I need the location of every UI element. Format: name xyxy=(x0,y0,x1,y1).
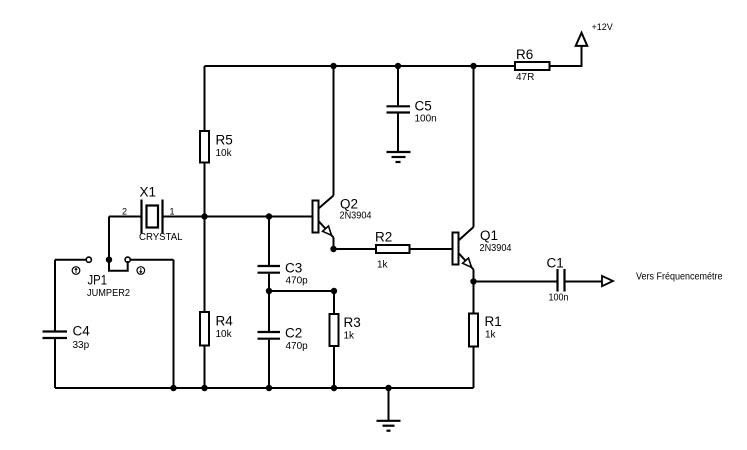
svg-text:C2: C2 xyxy=(285,326,302,341)
svg-text:R1: R1 xyxy=(485,314,502,329)
wire left column to C4 xyxy=(54,260,56,331)
capacitor C3 xyxy=(258,261,309,287)
wire Q2 emitter to R2 xyxy=(334,248,377,250)
wire R1 top xyxy=(473,282,475,314)
svg-text:JUMPER2: JUMPER2 xyxy=(87,288,130,299)
wire C5 bottom to ground xyxy=(397,114,399,152)
resistor R2 xyxy=(375,230,410,271)
svg-text:2N3904: 2N3904 xyxy=(480,243,512,254)
svg-text:10k: 10k xyxy=(216,148,233,159)
wire C3 bottom xyxy=(268,274,270,291)
svg-text:Q2: Q2 xyxy=(340,197,358,212)
svg-text:C4: C4 xyxy=(73,324,91,339)
svg-text:C3: C3 xyxy=(285,261,302,276)
svg-text:33p: 33p xyxy=(73,340,90,351)
power +12V xyxy=(576,22,613,46)
svg-text:100n: 100n xyxy=(415,114,437,125)
svg-text:2: 2 xyxy=(122,207,127,217)
wire C2 bottom xyxy=(268,340,270,388)
wire R2 to Q1 base xyxy=(410,248,453,250)
transistor Q1 xyxy=(453,227,512,270)
wire ground stub xyxy=(388,388,390,420)
svg-text:470p: 470p xyxy=(286,341,309,352)
svg-text:R2: R2 xyxy=(375,230,392,245)
wire R6 to +12V corner xyxy=(550,46,582,66)
svg-text:2N3904: 2N3904 xyxy=(340,211,372,222)
svg-text:Q1: Q1 xyxy=(480,228,498,243)
node bottom rail / ground xyxy=(385,385,391,391)
svg-text:R3: R3 xyxy=(344,315,361,330)
wire JP1 pin right xyxy=(130,259,173,261)
resistor R3 xyxy=(330,314,361,346)
svg-text:R5: R5 xyxy=(216,133,233,148)
wire Q1 emitter stub xyxy=(473,270,475,282)
wire R3 bottom xyxy=(333,346,335,388)
wire C2 top xyxy=(268,291,270,331)
resistor R6 xyxy=(515,47,550,83)
svg-text:Vers Fréquencemétre: Vers Fréquencemétre xyxy=(636,270,723,282)
transistor Q2 xyxy=(313,196,372,238)
node Q1 emitter / R1 / C1 xyxy=(470,278,476,284)
ground bottom rail xyxy=(377,421,401,431)
wire C4 bottom to bottom rail xyxy=(54,339,56,388)
svg-text:CRYSTAL: CRYSTAL xyxy=(139,232,183,243)
wire C5 top xyxy=(397,66,399,105)
svg-text:R4: R4 xyxy=(216,314,234,329)
wire C3-R3 row xyxy=(269,290,334,292)
node C3 bottom left xyxy=(266,288,272,294)
output arrow Vers Frequencemetre xyxy=(602,270,723,286)
svg-text:10k: 10k xyxy=(216,329,233,340)
wire crystal pin1 to Q2 base xyxy=(163,216,313,218)
node bottom rail / C2 xyxy=(266,385,272,391)
svg-text:1k: 1k xyxy=(344,331,356,342)
resistor R5 xyxy=(200,131,233,163)
wire R4 bottom to bottom rail xyxy=(204,346,206,389)
capacitor C5 xyxy=(387,99,437,125)
svg-text:1: 1 xyxy=(170,207,175,217)
svg-text:470p: 470p xyxy=(286,276,309,287)
node crystal row / C3 column xyxy=(266,213,272,219)
wire C3 top column xyxy=(268,217,270,266)
svg-text:100n: 100n xyxy=(549,293,569,304)
wire R1 bottom xyxy=(473,347,475,389)
node top rail / C5 xyxy=(395,63,401,69)
svg-text:X1: X1 xyxy=(140,185,157,200)
ground below C5 xyxy=(387,152,411,162)
resistor R1 xyxy=(469,314,502,347)
node top rail / Q2 collector xyxy=(330,63,336,69)
node bottom rail / R3 xyxy=(331,385,337,391)
wire Q2 emitter stub xyxy=(333,238,335,250)
jumper JP1 xyxy=(72,257,144,300)
svg-text:C1: C1 xyxy=(547,256,564,271)
resistor R4 xyxy=(200,312,233,346)
svg-text:R6: R6 xyxy=(516,47,533,62)
wire Q2 collector column xyxy=(333,66,335,196)
svg-text:+12V: +12V xyxy=(592,22,613,32)
svg-text:JP1: JP1 xyxy=(88,273,108,288)
wire JP1 right column down xyxy=(173,260,175,388)
wire JP1 pin left xyxy=(55,259,86,261)
capacitor C4 xyxy=(43,324,91,352)
crystal X1 xyxy=(122,185,183,244)
svg-text:1k: 1k xyxy=(377,260,389,271)
wire C1 to output arrow xyxy=(566,281,603,283)
capacitor C1 xyxy=(547,256,569,304)
node top rail / Q1 collector xyxy=(470,63,476,69)
node bottom rail / R4 xyxy=(201,385,207,391)
node bottom rail / JP1 column xyxy=(170,385,176,391)
wire R5 column top xyxy=(204,66,206,131)
svg-text:C5: C5 xyxy=(415,99,432,114)
capacitor C2 xyxy=(258,326,309,353)
wire crystal pin2 left xyxy=(109,216,142,218)
wire Q1 collector column xyxy=(473,66,475,227)
node C3 bottom right / R3 top xyxy=(331,288,337,294)
svg-text:47R: 47R xyxy=(516,72,534,83)
node Q2 emitter / R2 xyxy=(330,246,336,252)
wire R3 top xyxy=(333,291,335,314)
wire bottom rail xyxy=(55,387,474,389)
wire Q1 emitter to C1 xyxy=(474,281,557,283)
svg-text:1k: 1k xyxy=(485,330,497,341)
node crystal row / R5-R4 column xyxy=(201,213,207,219)
wire top rail left of R6 xyxy=(205,65,516,67)
wire R5 bottom to R4 top xyxy=(204,163,206,313)
wire crystal pin2 down to JP1 xyxy=(108,217,110,258)
